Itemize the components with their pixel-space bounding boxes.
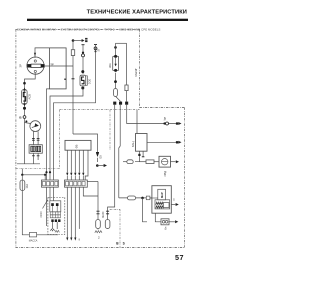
svg-text:Кл: Кл bbox=[163, 226, 167, 230]
ground zigzag 2 bbox=[55, 230, 59, 232]
junction dot J bbox=[141, 197, 144, 200]
gauge V body bbox=[30, 121, 41, 132]
sensor pin tick right bbox=[37, 155, 40, 157]
solenoid contact 1 bbox=[162, 221, 165, 224]
wire coil box to strip x46.5 bbox=[47, 89, 50, 180]
relay K2 hatch row 1 bbox=[50, 212, 60, 215]
terminal arrow T1 bbox=[82, 39, 85, 42]
svg-text:ЗР: ЗР bbox=[19, 64, 23, 68]
connector strip B body bbox=[65, 180, 88, 187]
ignition coil box bbox=[50, 48, 67, 89]
boundary right upper edge bbox=[139, 29, 141, 107]
svg-text:Ign: Ign bbox=[164, 116, 167, 120]
bus top left bbox=[73, 40, 82, 42]
wire x95 to strip x53.5 bbox=[54, 45, 96, 181]
comb tooth 1 bbox=[66, 150, 68, 173]
chain wire mid bbox=[139, 161, 146, 163]
comb pin stub 2 bbox=[70, 176, 72, 180]
wire ring to bus bbox=[24, 118, 26, 163]
fuse F4 body bbox=[96, 220, 101, 229]
sensor lead left bbox=[32, 153, 34, 164]
ring connector B bbox=[23, 116, 26, 119]
lower chain left stub bbox=[123, 161, 127, 163]
relay U element bbox=[82, 77, 84, 84]
relay K pin 2 tick bbox=[142, 156, 145, 158]
terminal dot right 1 bbox=[176, 122, 179, 125]
connector pair on bus bbox=[163, 122, 165, 124]
strip B right feed bbox=[87, 181, 98, 183]
svg-text:ЗАЖИГ: ЗАЖИГ bbox=[134, 67, 138, 77]
boundary bottom edge bbox=[16, 247, 185, 249]
strip B wire down 2 bbox=[70, 187, 72, 237]
coil box tick bbox=[64, 78, 66, 80]
fuse F3 bottom ring bbox=[114, 69, 117, 72]
square terminal 1 bbox=[113, 102, 116, 105]
partition dash lower vertical bbox=[119, 209, 121, 247]
strip A pin below 2 bbox=[49, 187, 51, 201]
wire divider drop bbox=[21, 169, 23, 175]
sensor block cell left bars bbox=[32, 146, 34, 151]
svg-text:57: 57 bbox=[175, 253, 184, 262]
wire x73 vertical bbox=[72, 41, 74, 135]
partition dash lower stub bbox=[110, 208, 120, 210]
solenoid arrow bbox=[169, 221, 175, 223]
terminal arrow right 2 bbox=[178, 141, 181, 144]
relay K2 lead 1 bbox=[52, 222, 54, 229]
fuse pair tick R1 bbox=[106, 210, 109, 212]
gauge pin tick left a bbox=[32, 138, 35, 140]
junction dot D bbox=[44, 174, 46, 176]
strip B wire down 4 bbox=[78, 187, 80, 229]
bottom pin tick 2 bbox=[70, 238, 72, 241]
strip A pin below 3 bbox=[53, 187, 55, 201]
svg-text:ЗОЕ: ЗОЕ bbox=[87, 79, 91, 85]
relay K2 inner lead left bbox=[52, 206, 54, 212]
strip B cell 4 bbox=[78, 181, 81, 185]
bullet connector x115 bbox=[114, 89, 118, 97]
sensor block cell left bbox=[31, 146, 35, 151]
junction dot H bbox=[49, 171, 51, 173]
connector ring on bus bbox=[166, 122, 169, 125]
comb pin arrow 1 bbox=[66, 173, 68, 176]
wire F2 down and right bbox=[22, 192, 58, 235]
sensor block body bbox=[29, 145, 42, 154]
wire ecu bottom bbox=[155, 213, 161, 222]
svg-text:ТЕХНИЧЕСКИЕ ХАРАКТЕРИСТИКИ: ТЕХНИЧЕСКИЕ ХАРАКТЕРИСТИКИ bbox=[87, 9, 187, 15]
distributor top terminal bbox=[34, 60, 36, 62]
svg-text:БАЦ: БАЦ bbox=[131, 142, 135, 148]
relay K pin 1 square bbox=[138, 154, 140, 156]
motor symbol bar bbox=[162, 161, 168, 163]
strip A cell 2 bbox=[47, 181, 50, 185]
relay U bracket bbox=[86, 76, 87, 86]
relay K pin 2 bbox=[142, 151, 144, 156]
chain wire to motor bbox=[154, 161, 159, 163]
terminal T1 plug bbox=[85, 38, 87, 42]
gauge pin tick right a bbox=[37, 138, 40, 140]
strip B wire down 1 bbox=[66, 187, 68, 237]
solenoid box bbox=[161, 219, 169, 225]
fuse pair tick L2 bbox=[97, 213, 100, 215]
relay K pin 1 bbox=[138, 151, 140, 154]
arrow right from dot F bbox=[97, 165, 103, 167]
junction dot F bbox=[96, 164, 99, 167]
relay K2 contact right bbox=[56, 203, 59, 206]
comb tooth 4 bbox=[78, 150, 80, 173]
gauge pin tick right b bbox=[37, 139, 40, 141]
distributor contact right bbox=[41, 64, 45, 67]
svg-text:В: В bbox=[116, 242, 119, 246]
comb pin stub 5 bbox=[82, 176, 84, 180]
fusebox comb block bbox=[65, 140, 91, 150]
svg-text:ООО: ООО bbox=[39, 211, 43, 217]
sensor block cell right bbox=[36, 146, 40, 151]
comb pin arrow 3 bbox=[74, 173, 76, 176]
connector ring x95 bbox=[94, 47, 97, 50]
fuse pair tick L1 bbox=[97, 210, 100, 212]
svg-text:8: 8 bbox=[79, 238, 81, 241]
connector ring x83 bbox=[82, 54, 85, 57]
wire dot J down bbox=[143, 198, 148, 222]
header rule bbox=[27, 19, 188, 21]
wire sq2 down to ecu bus bbox=[119, 105, 120, 198]
tick x95 top bbox=[94, 44, 97, 46]
sensor pin tick left bbox=[32, 155, 35, 157]
motor box bbox=[159, 156, 171, 167]
label plate bbox=[29, 233, 36, 237]
connector rect x126 bbox=[125, 85, 128, 91]
bus y43 right bbox=[116, 42, 127, 44]
wire x83 bbox=[82, 45, 84, 74]
relay U body bbox=[80, 75, 86, 86]
comb tooth 5 bbox=[82, 150, 84, 173]
ecu feed bus bbox=[119, 197, 152, 199]
solenoid contact 2 bbox=[165, 221, 168, 224]
fuse F1 bottom ring bbox=[23, 107, 26, 110]
fuse F3 body bbox=[113, 56, 119, 70]
bus y175 bbox=[22, 174, 45, 176]
motor symbol bbox=[162, 159, 168, 165]
wire x46.5 down bbox=[46, 192, 48, 226]
relay K2 inner lead right bbox=[56, 206, 58, 212]
wire sq3 to right bus bbox=[127, 105, 176, 124]
ecu inner rect 2 bbox=[163, 203, 169, 208]
strip A cell 4 bbox=[55, 181, 58, 185]
terminal arrow right 1 bbox=[178, 122, 181, 125]
ecu inner unit bbox=[158, 189, 166, 200]
ground bus left bbox=[17, 163, 40, 165]
fuse F5 body bbox=[105, 220, 110, 229]
fuse F1 inner glyph bbox=[23, 92, 25, 101]
relay K2 lead 2 bbox=[56, 222, 58, 229]
svg-text:ЅТ: ЅТ bbox=[98, 48, 101, 52]
diagonal wire to square bbox=[116, 97, 121, 102]
partition dash mid vertical bbox=[109, 110, 111, 150]
distributor cartridge bbox=[31, 64, 41, 67]
square terminal 2 bbox=[119, 102, 122, 105]
relay K2 hatch row 2 bbox=[50, 215, 60, 218]
comb pin stub 3 bbox=[74, 176, 76, 180]
oval connector chain bbox=[127, 160, 133, 164]
svg-text:2: 2 bbox=[98, 236, 100, 240]
junction dot C bbox=[21, 174, 23, 176]
relay K2 body bbox=[50, 201, 61, 212]
ground zigzag 1 bbox=[50, 229, 54, 231]
ecu box bbox=[152, 186, 171, 214]
fuse F1 bottom cap bbox=[23, 103, 26, 106]
wire fuse left vertical bbox=[97, 182, 99, 230]
gauge pin tick left b bbox=[32, 139, 35, 141]
sensor block cell right bars bbox=[38, 146, 40, 151]
svg-text:МАIN: МАIN bbox=[102, 212, 105, 218]
terminal T1 plug gap bbox=[85, 39, 87, 41]
fuse small on x73 bbox=[71, 50, 74, 56]
arrow head F bbox=[104, 164, 107, 167]
boundary step edge bbox=[140, 107, 185, 109]
wire x115 upper bbox=[115, 43, 117, 55]
gauge stub dot bbox=[25, 120, 27, 122]
gauge lead right bbox=[37, 131, 39, 144]
relay K2 pin square 3 bbox=[58, 219, 60, 222]
svg-text:МАР: МАР bbox=[160, 192, 164, 198]
wire x126 upper bbox=[126, 43, 128, 101]
HT lead wire bbox=[44, 65, 73, 67]
junction dot G bbox=[45, 171, 47, 173]
ring connector x115 bbox=[114, 80, 117, 83]
wire F3 down bbox=[115, 73, 117, 89]
comb pin arrow 5 bbox=[82, 173, 84, 176]
bottom pin tick 3 bbox=[74, 238, 76, 241]
boundary left edge bbox=[15, 29, 17, 247]
svg-text:S: S bbox=[173, 198, 175, 202]
partition dash box left bbox=[59, 110, 61, 169]
distributor rotor arrow bbox=[34, 53, 36, 57]
boundary right lower edge bbox=[184, 108, 186, 248]
relay K right lead bbox=[147, 141, 176, 143]
wire sq1 down to fuse pair bbox=[108, 105, 115, 229]
entry connector ecu bbox=[146, 196, 150, 200]
svg-text:GВ: GВ bbox=[100, 155, 103, 159]
fuse F3 element bbox=[115, 58, 117, 64]
fuse F3 top ring bbox=[114, 55, 117, 58]
gauge stub bbox=[25, 123, 31, 124]
connector strip A body bbox=[42, 180, 59, 187]
terminal arrow right 3 bbox=[176, 160, 179, 163]
ecu heater zigzag 1 bbox=[156, 202, 164, 204]
junction dot A bbox=[23, 82, 26, 85]
comb pin stub 4 bbox=[78, 176, 80, 180]
bottom pin tick 1 bbox=[66, 238, 68, 241]
wire border step to relay K bbox=[136, 110, 138, 134]
junction dot I bbox=[114, 46, 117, 49]
strip B cell 1 bbox=[66, 181, 69, 185]
ecu heater zigzag 2 bbox=[156, 206, 164, 208]
gauge lead left bbox=[32, 131, 34, 144]
ground zigzag F4 bbox=[95, 231, 102, 233]
comb tooth 6 jog bbox=[85, 150, 88, 180]
distributor body bbox=[27, 57, 44, 74]
oval fuse on ecu bus bbox=[128, 196, 136, 200]
connector gap dash bbox=[96, 158, 98, 162]
relay U bottom ring bbox=[81, 87, 84, 90]
comb pin arrow 2 bbox=[70, 173, 72, 176]
wire pin1 to lower chain bbox=[135, 156, 139, 162]
gauge needle bbox=[32, 124, 38, 128]
ecu inner frame bbox=[155, 200, 170, 209]
svg-text:30А: 30А bbox=[108, 63, 112, 68]
wire distributor bottom bend bbox=[25, 73, 36, 82]
relay K2 pointer line bbox=[43, 200, 48, 209]
fuse F1 element bbox=[24, 85, 26, 110]
terminal dot right 2 bbox=[176, 141, 179, 144]
comb tooth 2 bbox=[70, 150, 72, 173]
square terminal 3 bbox=[125, 102, 128, 105]
wire relay to strip x50 bbox=[50, 88, 83, 180]
strip A pin below 1 bbox=[46, 187, 48, 192]
junction dot E bbox=[72, 39, 75, 42]
strip B wire down 3 bbox=[74, 187, 76, 237]
comb pin stub 1 bbox=[66, 176, 68, 180]
fuse F3 arrow bbox=[114, 64, 116, 67]
relay K2 pin square 1 bbox=[51, 219, 53, 222]
terminal arrow right 4 bbox=[176, 203, 179, 206]
wire F1 to ring bbox=[24, 110, 26, 116]
relay U top ring bbox=[81, 70, 84, 73]
sensor lead right bbox=[37, 153, 39, 160]
relay K body bbox=[136, 134, 148, 152]
ecu entry wire bbox=[150, 197, 158, 199]
tick on x73 bbox=[72, 78, 75, 80]
relay K2 contact left bbox=[51, 203, 54, 206]
terminal pin P1 bbox=[96, 152, 99, 156]
strip A cell 1 bbox=[43, 181, 46, 185]
strip B wire down 5 bend bbox=[83, 187, 98, 196]
comb pin arrow 4 bbox=[78, 173, 80, 176]
distributor bottom terminal bbox=[34, 70, 36, 72]
svg-text:В: В bbox=[19, 116, 22, 120]
partition dash box top bbox=[60, 109, 140, 111]
relay K2 pin square 2 bbox=[55, 219, 57, 222]
fuse F1 body bbox=[22, 90, 28, 105]
strip B cell 2 bbox=[70, 181, 73, 185]
fuse F2 body bbox=[20, 180, 25, 191]
strip B cell 5 bbox=[82, 181, 85, 185]
wire dot D to strip bbox=[44, 175, 46, 180]
comb tooth 3 bbox=[74, 150, 76, 173]
partition divider left bbox=[16, 168, 60, 170]
svg-text:10А: 10А bbox=[25, 184, 29, 189]
svg-text:АСВ: АСВ bbox=[28, 94, 32, 100]
svg-text:ОВД: ОВД bbox=[163, 171, 167, 177]
fuse pair tick R2 bbox=[106, 213, 109, 215]
svg-text:S: S bbox=[123, 242, 125, 246]
strip B cell 3 bbox=[74, 181, 77, 185]
motor arrow right bbox=[171, 161, 176, 163]
small rect chain bbox=[146, 160, 154, 164]
distributor contact left bbox=[27, 64, 31, 67]
boundary top edge bbox=[16, 28, 140, 30]
fuse F2 element bbox=[21, 175, 23, 192]
tick x83 bbox=[82, 44, 85, 46]
fuse F1 top cap bbox=[23, 88, 26, 91]
svg-text:ФБ: ФБ bbox=[75, 144, 79, 148]
connector dot x95 bbox=[95, 50, 97, 52]
ecu arrow right bbox=[171, 204, 175, 206]
strip A cell 3 bbox=[51, 181, 54, 185]
wire distributor top to coil box bbox=[35, 48, 50, 58]
svg-text:МАССА: МАССА bbox=[29, 240, 38, 243]
connector dot x83 bbox=[82, 52, 84, 54]
dashed relay box bbox=[48, 198, 65, 235]
wire x73 bend to terminal bbox=[73, 134, 98, 152]
terminal arrow right 5 bbox=[175, 220, 178, 223]
